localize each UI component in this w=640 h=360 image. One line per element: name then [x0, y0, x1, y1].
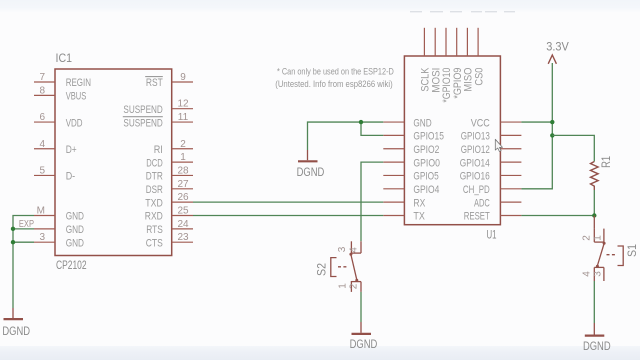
- svg-text:SUSPEND: SUSPEND: [123, 104, 162, 116]
- svg-text:RTS: RTS: [146, 224, 163, 236]
- ground DGND left: [2, 308, 30, 338]
- svg-text:CTS: CTS: [146, 237, 163, 249]
- svg-text:GND: GND: [66, 211, 84, 223]
- pin 1 stub: [350, 282, 352, 292]
- wire S1 to ground: [593, 281, 595, 323]
- bottom letterbox bar: [0, 346, 640, 360]
- svg-text:VDD: VDD: [66, 117, 83, 129]
- svg-text:VCC: VCC: [471, 117, 490, 129]
- junction dot VCC/3.3V: [550, 120, 554, 124]
- svg-text:5: 5: [39, 165, 45, 176]
- mouse cursor: [495, 139, 502, 151]
- actuator bracket: [331, 258, 337, 277]
- svg-text:GPIO5: GPIO5: [413, 171, 438, 183]
- ground DGND under S2: [350, 322, 378, 351]
- svg-text:GPIO4: GPIO4: [413, 184, 439, 196]
- svg-text:12: 12: [177, 99, 189, 110]
- svg-text:25: 25: [177, 206, 189, 217]
- lever: [351, 255, 357, 280]
- svg-text:1: 1: [592, 235, 603, 241]
- IC1 left pin names: [66, 77, 91, 249]
- IC1 left pin stubs: [34, 82, 55, 242]
- svg-text:GPIO14: GPIO14: [460, 157, 490, 169]
- S2 top contact: [349, 253, 352, 256]
- resistor R1: [591, 156, 614, 190]
- pin 3 stub: [350, 241, 352, 253]
- svg-text:DTR: DTR: [146, 171, 163, 183]
- IC IC1 CP2102 body: [55, 51, 172, 272]
- wire GPIO0 to S2: [361, 162, 383, 241]
- wire S2 to ground: [360, 292, 362, 322]
- U1 right pin stubs: [500, 122, 521, 215]
- svg-text:GPIO2: GPIO2: [413, 144, 439, 156]
- IC1 left pin numbers: [19, 72, 46, 243]
- svg-text:2: 2: [582, 235, 593, 241]
- svg-text:1: 1: [180, 152, 186, 163]
- svg-text:11: 11: [178, 112, 189, 123]
- svg-text:26: 26: [177, 192, 189, 203]
- svg-text:3: 3: [39, 232, 45, 243]
- wire 3.3V rail to CH_PD: [521, 63, 552, 189]
- svg-text:R1: R1: [599, 156, 613, 168]
- svg-text:S1: S1: [625, 244, 639, 257]
- svg-text:6: 6: [39, 112, 45, 123]
- pin 2 stub: [593, 229, 595, 243]
- svg-text:GPIO0: GPIO0: [413, 157, 440, 169]
- S1 bottom contact: [596, 265, 599, 268]
- ground DGND middle: [297, 150, 325, 179]
- svg-text:RESET: RESET: [464, 211, 490, 223]
- svg-text:TXD: TXD: [145, 197, 163, 209]
- top connector: [351, 252, 361, 254]
- S2 bottom contact: [355, 279, 358, 282]
- svg-text:8: 8: [39, 85, 45, 96]
- svg-text:VBUS: VBUS: [66, 91, 87, 103]
- svg-text:GPIO16: GPIO16: [460, 171, 490, 183]
- svg-text:* Can only be used on the ESP1: * Can only be used on the ESP12-D: [277, 67, 394, 78]
- svg-text:D+: D+: [66, 144, 77, 156]
- overline RST pin9: [145, 76, 163, 78]
- svg-text:7: 7: [39, 72, 45, 83]
- pin 3 stub: [603, 267, 605, 281]
- svg-text:DGND: DGND: [583, 339, 611, 353]
- actuator dashes: [607, 254, 617, 256]
- svg-text:U1: U1: [487, 227, 497, 241]
- svg-text:RI: RI: [154, 144, 163, 156]
- svg-text:DGND: DGND: [297, 165, 325, 179]
- svg-text:GND: GND: [66, 237, 84, 249]
- svg-text:RX: RX: [413, 197, 425, 209]
- svg-text:RXD: RXD: [145, 211, 163, 223]
- svg-text:DSR: DSR: [146, 184, 163, 196]
- wire RESET: [521, 215, 594, 217]
- lever: [598, 244, 605, 266]
- U1 top pin names (vertical): [420, 67, 486, 102]
- svg-text:DGND: DGND: [350, 337, 378, 351]
- module U1 (ESP8266) body: [404, 56, 500, 241]
- supply symbol 3.3V: [546, 39, 569, 64]
- pin 4 stub: [360, 241, 362, 253]
- wire R1 bottom: [593, 190, 595, 216]
- bottom connector: [351, 281, 361, 283]
- svg-text:GPIO15: GPIO15: [413, 131, 444, 143]
- junction dot GND branch: [359, 120, 363, 124]
- svg-text:GPIO12: GPIO12: [461, 144, 490, 156]
- U1 left pin names: [413, 117, 444, 222]
- U1 left pin stubs: [383, 122, 404, 215]
- junction dot EXP/GND: [11, 227, 15, 231]
- S1 top contact: [603, 242, 606, 245]
- svg-text:4: 4: [582, 271, 593, 277]
- wire VCC: [521, 121, 552, 123]
- pin 4 stub: [593, 267, 595, 281]
- svg-text:M: M: [37, 206, 45, 217]
- svg-text:RST: RST: [146, 77, 163, 89]
- svg-text:IC1: IC1: [56, 51, 73, 65]
- svg-text:3.3V: 3.3V: [546, 39, 569, 53]
- IC1 right pin stubs: [172, 82, 193, 242]
- svg-text:23: 23: [177, 232, 189, 243]
- wire R1 top branch: [552, 135, 594, 161]
- svg-text:GND: GND: [413, 117, 431, 129]
- svg-text:SUSPEND: SUSPEND: [123, 117, 162, 129]
- svg-text:2: 2: [180, 139, 186, 150]
- svg-text:4: 4: [348, 247, 359, 253]
- svg-text:(Untested. Info from esp8266 w: (Untested. Info from esp8266 wiki): [275, 79, 392, 90]
- wire from RESET junction: [593, 216, 595, 229]
- svg-text:27: 27: [177, 179, 189, 190]
- IC1 right pin numbers: [177, 72, 189, 243]
- junction dot RESET/R1/S1: [592, 213, 596, 217]
- svg-text:D-: D-: [66, 171, 76, 183]
- bottom connector: [594, 266, 604, 268]
- junction dot 3/GND: [11, 240, 15, 244]
- svg-text:24: 24: [177, 219, 189, 230]
- svg-text:9: 9: [180, 72, 186, 83]
- pin 1 stub: [603, 229, 605, 243]
- overline SUSPEND pin11: [123, 116, 163, 118]
- svg-text:GPIO13: GPIO13: [461, 131, 490, 143]
- svg-text:3: 3: [337, 246, 348, 252]
- svg-text:TX: TX: [413, 211, 425, 223]
- switch S1: [594, 216, 623, 282]
- top connector: [594, 241, 604, 243]
- svg-text:CP2102: CP2102: [56, 258, 87, 272]
- svg-text:28: 28: [177, 165, 189, 176]
- svg-text:4: 4: [39, 139, 45, 150]
- svg-text:GND: GND: [66, 224, 84, 236]
- U1 top pin stubs: [424, 28, 478, 56]
- net GND of U1: wires: [308, 122, 384, 150]
- svg-text:ADC: ADC: [474, 197, 490, 209]
- svg-text:REGIN: REGIN: [66, 77, 91, 89]
- switch S2: [331, 241, 361, 292]
- U1 right pin names: [460, 117, 490, 222]
- wire TXD to RX: [193, 201, 383, 203]
- svg-text:S2: S2: [314, 263, 328, 276]
- actuator bracket: [618, 246, 624, 266]
- ground DGND under S1: [583, 323, 611, 353]
- svg-text:CS0: CS0: [473, 68, 485, 86]
- junction dot R1 branch: [550, 133, 554, 137]
- pin 2 stub: [360, 282, 362, 292]
- svg-text:DCD: DCD: [146, 157, 163, 169]
- svg-text:1: 1: [337, 283, 348, 289]
- S1 pin numbers: [582, 235, 604, 277]
- svg-text:CH_PD: CH_PD: [463, 184, 490, 196]
- IC1 right pin names: [123, 77, 163, 249]
- svg-text:3: 3: [592, 271, 603, 277]
- svg-text:DGND: DGND: [2, 324, 30, 338]
- svg-text:2: 2: [349, 283, 360, 289]
- wire RXD to TX: [193, 215, 383, 217]
- net GND left of IC1: wire: [13, 216, 34, 309]
- S2 pin numbers: [337, 246, 360, 289]
- actuator dashes: [338, 266, 348, 268]
